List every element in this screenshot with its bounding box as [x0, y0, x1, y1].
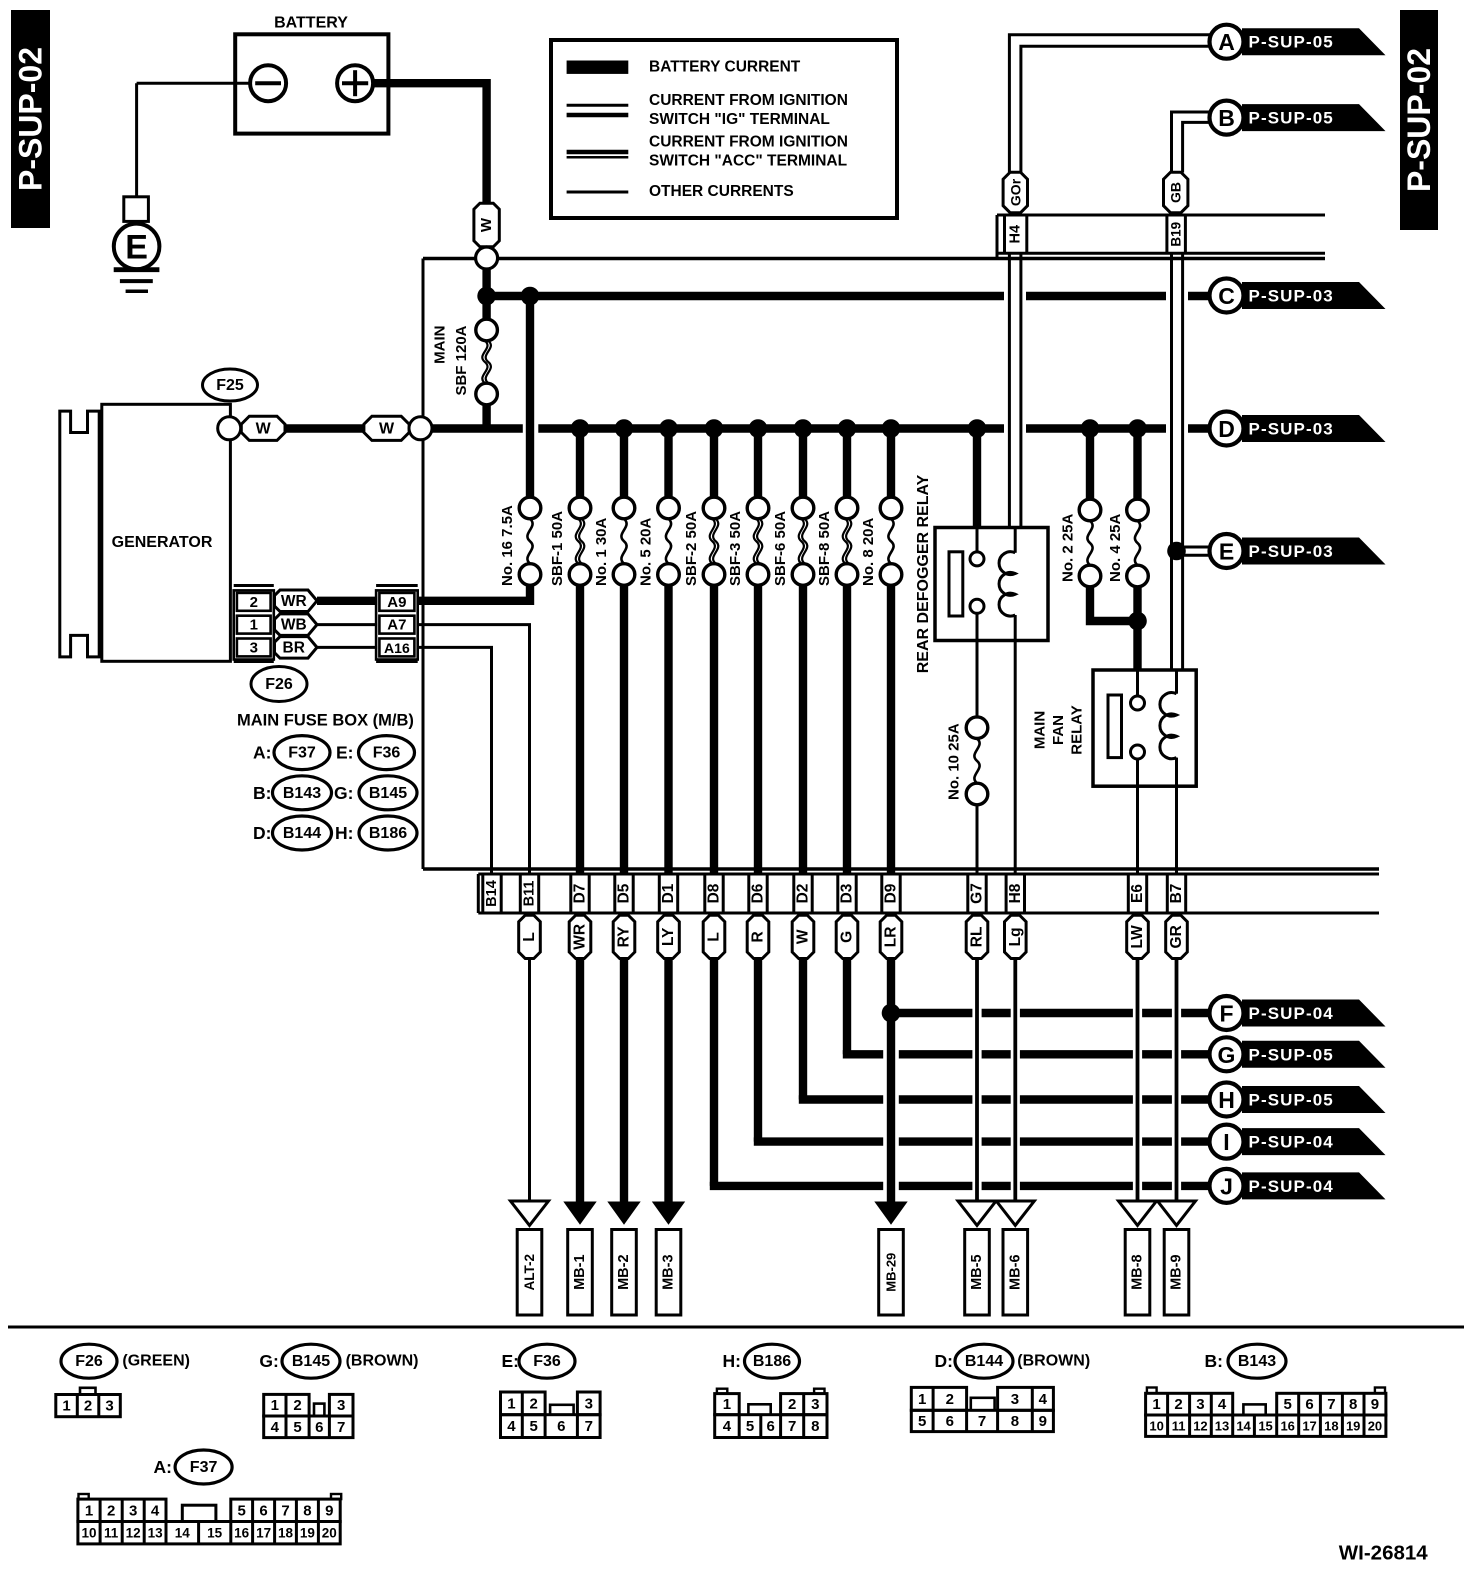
- svg-text:D8: D8: [706, 883, 723, 903]
- svg-text:1: 1: [250, 617, 258, 634]
- svg-text:CURRENT FROM IGNITION: CURRENT FROM IGNITION: [649, 133, 848, 150]
- connector B186 pins: [717, 1389, 727, 1394]
- svg-text:A9: A9: [387, 594, 406, 611]
- wire A16 to B14: [418, 647, 492, 874]
- svg-text:7: 7: [978, 1413, 986, 1430]
- fuse No. 10 25A: [966, 717, 988, 739]
- main fan relay box: [1093, 670, 1196, 786]
- defogger relay coil: [1014, 528, 1017, 553]
- svg-text:(GREEN): (GREEN): [122, 1353, 190, 1370]
- page label P-SUP-02 left: [11, 10, 50, 228]
- svg-text:A:: A:: [253, 743, 271, 763]
- svg-text:4: 4: [1039, 1391, 1048, 1408]
- svg-text:7: 7: [788, 1418, 796, 1435]
- svg-text:6: 6: [557, 1418, 565, 1435]
- wire label WR: [275, 590, 318, 612]
- svg-text:9: 9: [1039, 1413, 1047, 1430]
- svg-text:3: 3: [337, 1397, 345, 1414]
- pin E6: [1127, 874, 1130, 913]
- wire battery feed into box: [482, 269, 490, 320]
- wire capsule to box: [482, 247, 490, 248]
- wire label GB: [1164, 172, 1188, 213]
- junction battery/bus C: [477, 287, 496, 306]
- svg-text:LW: LW: [1129, 925, 1146, 949]
- svg-text:3: 3: [585, 1395, 593, 1412]
- wire fan relay to E6: [1136, 786, 1139, 874]
- battery plus terminal: [337, 65, 373, 101]
- svg-text:8: 8: [1011, 1413, 1019, 1430]
- wire A7 to B11: [418, 625, 530, 874]
- svg-text:P-SUP-04: P-SUP-04: [1249, 1133, 1334, 1152]
- battery minus terminal: [250, 65, 286, 101]
- wire color label RL: [966, 915, 988, 958]
- wire L to ALT-2: [528, 958, 531, 1202]
- svg-text:1: 1: [85, 1502, 93, 1519]
- defogger relay switch: [976, 528, 979, 552]
- main fuse box outline: [423, 257, 1325, 261]
- svg-text:9: 9: [325, 1502, 333, 1519]
- svg-text:16: 16: [1280, 1419, 1294, 1434]
- wire WB to A7: [317, 623, 377, 626]
- svg-text:H: H: [1218, 1087, 1235, 1113]
- svg-text:WI-26814: WI-26814: [1339, 1542, 1428, 1565]
- fuse No. 1 30A: [620, 429, 628, 498]
- svg-text:MB-29: MB-29: [884, 1253, 899, 1292]
- bus D (thick): [228, 424, 523, 432]
- svg-text:B186: B186: [753, 1353, 791, 1370]
- arrow B P-SUP-05: [1242, 104, 1386, 131]
- svg-text:MAIN: MAIN: [1032, 711, 1049, 749]
- svg-text:2: 2: [788, 1396, 796, 1413]
- svg-text:P-SUP-03: P-SUP-03: [1249, 542, 1334, 561]
- arrow to MB-29: [874, 1202, 907, 1225]
- arrow F P-SUP-04: [1242, 1000, 1386, 1027]
- svg-text:12: 12: [126, 1526, 141, 1541]
- box entry circle bus D: [409, 417, 432, 440]
- svg-text:No. 8 20A: No. 8 20A: [860, 517, 877, 586]
- junction E on B19 wire: [1167, 542, 1186, 561]
- svg-text:D5: D5: [616, 883, 633, 903]
- fuse No. 8 20A: [887, 429, 895, 498]
- generator connector bracket: [60, 411, 99, 657]
- svg-text:F: F: [1219, 1001, 1233, 1027]
- connector F25: [203, 369, 258, 401]
- svg-text:B:: B:: [253, 783, 271, 803]
- svg-text:MB-6: MB-6: [1007, 1254, 1023, 1289]
- svg-text:MB-9: MB-9: [1169, 1254, 1185, 1289]
- svg-text:No. 2 25A: No. 2 25A: [1060, 513, 1077, 582]
- svg-text:F26: F26: [75, 1353, 103, 1370]
- svg-text:11: 11: [104, 1526, 119, 1541]
- svg-text:F26: F26: [265, 676, 293, 693]
- pin H8: [1005, 874, 1008, 913]
- svg-text:B186: B186: [369, 825, 407, 842]
- svg-text:7: 7: [585, 1418, 593, 1435]
- svg-text:2: 2: [107, 1502, 115, 1519]
- svg-text:RY: RY: [616, 926, 633, 948]
- legend box: [551, 40, 897, 218]
- wire color label R: [747, 915, 769, 958]
- svg-text:No. 16 7.5A: No. 16 7.5A: [499, 505, 516, 586]
- pin D1: [658, 874, 661, 913]
- svg-text:SBF-1 50A: SBF-1 50A: [549, 511, 566, 586]
- wire color label WR: [569, 915, 591, 958]
- wire battery plus feed (thick): [373, 83, 487, 203]
- wire RY to MB-2 (thick): [620, 958, 628, 1205]
- svg-text:MB-5: MB-5: [969, 1254, 985, 1289]
- svg-text:P-SUP-05: P-SUP-05: [1249, 1091, 1334, 1110]
- svg-text:B145: B145: [369, 785, 407, 802]
- svg-text:P-SUP-03: P-SUP-03: [1249, 287, 1334, 306]
- wire color label G: [836, 915, 858, 958]
- svg-text:11: 11: [1172, 1419, 1186, 1434]
- svg-text:6: 6: [767, 1418, 775, 1435]
- fuse No. 4 25A: [1128, 419, 1147, 438]
- wire color label RY: [613, 915, 635, 958]
- svg-text:1: 1: [918, 1391, 926, 1408]
- svg-text:F25: F25: [216, 377, 244, 394]
- connector F26: [251, 667, 307, 702]
- pin D6: [747, 874, 750, 913]
- svg-text:SBF-6 50A: SBF-6 50A: [772, 511, 789, 586]
- svg-text:E: E: [1219, 539, 1234, 565]
- svg-text:MB-3: MB-3: [661, 1254, 677, 1289]
- wire GOr below strip: [1008, 253, 1011, 527]
- fuse SBF-2 50A: [710, 429, 718, 498]
- svg-text:14: 14: [1236, 1419, 1251, 1434]
- wire bus D to defogger relay (thick): [973, 429, 981, 528]
- svg-text:9: 9: [1371, 1396, 1379, 1413]
- svg-text:18: 18: [1324, 1419, 1338, 1434]
- arrow to MB-8: [1119, 1201, 1157, 1225]
- wire fan relay coil to B7: [1175, 786, 1178, 874]
- page label P-SUP-02 right: [1400, 10, 1438, 230]
- wire to arrow B (double line): [1172, 112, 1213, 173]
- svg-text:4: 4: [271, 1419, 280, 1436]
- wire W to arrow H (thick): [799, 958, 807, 1100]
- svg-text:SBF 120A: SBF 120A: [453, 325, 470, 395]
- svg-text:A:: A:: [154, 1457, 172, 1477]
- svg-text:G:: G:: [259, 1351, 278, 1371]
- svg-text:E6: E6: [1129, 884, 1146, 903]
- svg-text:5: 5: [293, 1419, 301, 1436]
- svg-text:P-SUP-04: P-SUP-04: [1249, 1177, 1334, 1196]
- svg-text:H:: H:: [723, 1351, 741, 1371]
- pin B19: [1165, 215, 1168, 253]
- wire LW to MB-8: [1136, 958, 1140, 1202]
- wire defogger coil to H8: [1014, 640, 1017, 874]
- connector box A9/A7/A16: [376, 584, 418, 587]
- wire Lg to MB-6: [1013, 958, 1017, 1202]
- svg-text:W: W: [256, 420, 272, 437]
- legend other currents line: [567, 191, 629, 194]
- wire to arrow A (double line): [1009, 35, 1212, 173]
- fuse MAIN SBF 120A: [476, 319, 498, 341]
- svg-text:RL: RL: [969, 927, 986, 948]
- svg-text:B:: B:: [1205, 1351, 1223, 1371]
- svg-text:B: B: [1218, 105, 1235, 131]
- fuse SBF-1 50A: [576, 429, 584, 498]
- arrow J P-SUP-04: [1242, 1172, 1386, 1199]
- svg-text:F36: F36: [533, 1353, 561, 1370]
- svg-text:P-SUP-02: P-SUP-02: [1401, 48, 1437, 192]
- pin B11: [519, 874, 522, 913]
- svg-text:A16: A16: [384, 640, 410, 656]
- svg-text:5: 5: [530, 1418, 538, 1435]
- svg-text:REAR DEFOGGER RELAY: REAR DEFOGGER RELAY: [915, 474, 932, 673]
- svg-text:MB-1: MB-1: [572, 1254, 588, 1289]
- pin B14: [481, 874, 484, 913]
- svg-text:W: W: [478, 217, 495, 232]
- wire label GOr: [1003, 172, 1027, 213]
- svg-text:J: J: [1220, 1173, 1233, 1199]
- arrow to MB-5: [958, 1201, 996, 1225]
- svg-text:C: C: [1218, 283, 1235, 309]
- svg-text:D:: D:: [935, 1351, 953, 1371]
- svg-text:2: 2: [250, 594, 258, 611]
- svg-text:P-SUP-04: P-SUP-04: [1249, 1004, 1334, 1023]
- svg-text:4: 4: [151, 1502, 160, 1519]
- svg-text:L: L: [706, 932, 723, 941]
- svg-text:B7: B7: [1168, 884, 1185, 904]
- wire LY to MB-3 (thick): [664, 958, 672, 1205]
- wire WR to MB-1 (thick): [576, 958, 584, 1205]
- arrow to ALT-2: [511, 1201, 549, 1225]
- svg-text:6: 6: [1305, 1396, 1313, 1413]
- wire label BR: [275, 637, 318, 659]
- arrow C P-SUP-03: [1242, 282, 1386, 309]
- pin D3: [836, 874, 839, 913]
- svg-text:I: I: [1223, 1129, 1229, 1155]
- svg-text:B144: B144: [965, 1353, 1003, 1370]
- svg-text:F36: F36: [373, 745, 401, 762]
- svg-text:4: 4: [507, 1418, 516, 1435]
- arrow H P-SUP-05: [1242, 1086, 1386, 1113]
- arrow E P-SUP-03: [1242, 538, 1386, 565]
- fan relay coil: [1175, 670, 1178, 694]
- arrow to MB-1: [563, 1202, 596, 1225]
- svg-text:10: 10: [1149, 1419, 1163, 1434]
- svg-text:FAN: FAN: [1050, 715, 1067, 745]
- fuse No. 16 7.5A: [526, 296, 534, 498]
- svg-text:7: 7: [281, 1502, 289, 1519]
- svg-text:OTHER CURRENTS: OTHER CURRENTS: [649, 183, 794, 200]
- svg-text:A7: A7: [387, 617, 406, 634]
- svg-text:20: 20: [1368, 1419, 1382, 1434]
- svg-text:D6: D6: [750, 883, 767, 903]
- svg-text:GB: GB: [1168, 182, 1184, 203]
- svg-text:G7: G7: [969, 883, 986, 904]
- svg-text:D9: D9: [883, 883, 900, 903]
- svg-text:LR: LR: [883, 927, 900, 948]
- svg-text:B11: B11: [522, 881, 538, 907]
- arrow to MB-2: [607, 1202, 640, 1225]
- pin D7: [569, 874, 572, 913]
- svg-text:CURRENT FROM IGNITION: CURRENT FROM IGNITION: [649, 92, 848, 109]
- junction bus C to fuse 16: [521, 287, 540, 306]
- pin G7: [966, 874, 969, 913]
- arrow to MB-3: [652, 1202, 685, 1225]
- svg-text:8: 8: [1349, 1396, 1357, 1413]
- wire color label LW: [1127, 915, 1149, 958]
- wire color label Lg: [1005, 915, 1027, 958]
- svg-text:13: 13: [1215, 1419, 1229, 1434]
- pin H4: [1003, 215, 1006, 253]
- pin B7: [1166, 874, 1169, 913]
- svg-text:RELAY: RELAY: [1069, 705, 1086, 754]
- fuse No. 2 25A: [1081, 419, 1100, 438]
- connector F26 pins: [80, 1388, 96, 1395]
- svg-text:17: 17: [256, 1526, 271, 1541]
- ground symbol: [114, 267, 160, 272]
- arrow G P-SUP-05: [1242, 1041, 1386, 1068]
- svg-text:P-SUP-05: P-SUP-05: [1249, 109, 1334, 128]
- svg-text:BATTERY CURRENT: BATTERY CURRENT: [649, 59, 801, 76]
- svg-text:MAIN: MAIN: [432, 326, 449, 364]
- svg-text:1: 1: [62, 1398, 70, 1415]
- svg-text:LY: LY: [660, 927, 677, 946]
- svg-text:B143: B143: [1238, 1353, 1276, 1370]
- svg-text:G: G: [839, 931, 856, 943]
- svg-text:3: 3: [811, 1396, 819, 1413]
- pin D9: [880, 874, 883, 913]
- wire to arrow E (double line): [1177, 546, 1213, 549]
- connector strip top: [997, 214, 1325, 217]
- wire label W (bus D): [364, 416, 409, 440]
- svg-text:2: 2: [84, 1398, 92, 1415]
- legend IG current lines: [567, 104, 629, 107]
- svg-text:4: 4: [723, 1418, 732, 1435]
- svg-text:D2: D2: [795, 884, 812, 904]
- wire to arrow F (thick): [891, 1009, 972, 1017]
- svg-text:1: 1: [723, 1396, 731, 1413]
- svg-text:13: 13: [148, 1526, 164, 1541]
- svg-text:8: 8: [303, 1502, 311, 1519]
- svg-text:No. 1 30A: No. 1 30A: [593, 517, 610, 586]
- connector F36 pins: [501, 1392, 546, 1415]
- svg-text:D1: D1: [660, 883, 677, 903]
- ground point E: [114, 224, 160, 270]
- wire LR to MB-29 (thick): [887, 958, 895, 1205]
- rear defogger relay box: [935, 528, 1048, 641]
- pin D5: [613, 874, 616, 913]
- svg-text:BR: BR: [283, 639, 305, 656]
- svg-text:5: 5: [238, 1502, 246, 1519]
- svg-text:F37: F37: [190, 1459, 218, 1476]
- svg-text:7: 7: [337, 1419, 345, 1436]
- svg-text:6: 6: [946, 1413, 954, 1430]
- svg-text:BATTERY: BATTERY: [274, 15, 348, 32]
- svg-text:GOr: GOr: [1007, 178, 1023, 206]
- connector F26 (GREEN) label: [61, 1344, 117, 1378]
- generator pin box: [234, 584, 274, 587]
- svg-text:2: 2: [946, 1391, 954, 1408]
- svg-text:WB: WB: [281, 617, 307, 634]
- fuse SBF-6 50A: [799, 429, 807, 498]
- svg-text:(BROWN): (BROWN): [1017, 1353, 1090, 1370]
- svg-text:P-SUP-02: P-SUP-02: [13, 47, 49, 191]
- generator terminal circle: [218, 417, 241, 440]
- svg-text:P-SUP-05: P-SUP-05: [1249, 1045, 1334, 1064]
- wire color label L: [519, 915, 541, 958]
- svg-text:B145: B145: [292, 1353, 330, 1370]
- connector circle battery entry: [476, 247, 498, 269]
- svg-text:E: E: [125, 229, 148, 267]
- connector B143 pins: [1147, 1388, 1157, 1394]
- svg-text:2: 2: [1174, 1396, 1182, 1413]
- svg-text:2: 2: [293, 1397, 301, 1414]
- junction fan relay feed: [1128, 612, 1147, 631]
- connector B144 pins: [911, 1387, 966, 1410]
- svg-text:GR: GR: [1168, 925, 1185, 948]
- arrow I P-SUP-04: [1242, 1128, 1386, 1155]
- svg-text:B19: B19: [1169, 222, 1184, 247]
- svg-text:3: 3: [250, 639, 258, 656]
- svg-text:MAIN FUSE BOX (M/B): MAIN FUSE BOX (M/B): [237, 711, 414, 729]
- legend battery current bar: [567, 61, 629, 74]
- svg-text:6: 6: [315, 1419, 323, 1436]
- svg-text:No. 5 20A: No. 5 20A: [638, 517, 655, 586]
- svg-text:6: 6: [259, 1502, 267, 1519]
- svg-text:B143: B143: [283, 785, 321, 802]
- wire RL to MB-5: [975, 958, 979, 1202]
- svg-text:1: 1: [507, 1395, 515, 1412]
- svg-text:18: 18: [278, 1526, 294, 1541]
- svg-text:B14: B14: [484, 880, 500, 907]
- wire L(D8) to arrow J (thick): [710, 958, 718, 1186]
- wire B19 below strip: [1170, 253, 1173, 670]
- svg-text:5: 5: [1284, 1396, 1292, 1413]
- svg-text:19: 19: [300, 1526, 315, 1541]
- svg-text:(BROWN): (BROWN): [346, 1353, 419, 1370]
- svg-text:12: 12: [1193, 1419, 1207, 1434]
- svg-text:7: 7: [1327, 1396, 1335, 1413]
- svg-text:P-SUP-03: P-SUP-03: [1249, 420, 1334, 439]
- svg-text:E:: E:: [336, 743, 354, 763]
- wire color label GR: [1166, 915, 1188, 958]
- arrow to MB-9: [1158, 1201, 1196, 1225]
- svg-text:5: 5: [746, 1418, 754, 1435]
- svg-text:2: 2: [530, 1395, 538, 1412]
- svg-text:WR: WR: [281, 593, 307, 610]
- svg-text:H4: H4: [1008, 225, 1024, 244]
- svg-text:10: 10: [81, 1526, 96, 1541]
- svg-text:GENERATOR: GENERATOR: [112, 534, 213, 551]
- svg-text:4: 4: [1218, 1396, 1227, 1413]
- svg-text:P-SUP-05: P-SUP-05: [1249, 33, 1334, 52]
- svg-text:A: A: [1218, 29, 1235, 55]
- wire WR to A9 (thick): [317, 597, 377, 605]
- svg-text:SWITCH "IG" TERMINAL: SWITCH "IG" TERMINAL: [649, 111, 830, 128]
- wire R to arrow I (thick): [754, 958, 762, 1142]
- svg-text:G: G: [1218, 1042, 1236, 1068]
- svg-text:E:: E:: [502, 1351, 520, 1371]
- svg-text:WR: WR: [572, 924, 589, 950]
- svg-text:No. 10 25A: No. 10 25A: [946, 723, 963, 800]
- svg-text:D7: D7: [572, 884, 589, 904]
- svg-text:3: 3: [1011, 1391, 1019, 1408]
- svg-text:19: 19: [1346, 1419, 1360, 1434]
- svg-text:20: 20: [322, 1526, 337, 1541]
- svg-text:17: 17: [1302, 1419, 1316, 1434]
- battery box: [235, 34, 388, 133]
- connector F37 pins: [79, 1494, 89, 1499]
- pin D8: [703, 874, 706, 913]
- svg-text:D:: D:: [253, 823, 271, 843]
- wire label W (battery feed): [474, 203, 499, 247]
- svg-text:SBF-8 50A: SBF-8 50A: [816, 511, 833, 586]
- svg-text:H8: H8: [1007, 883, 1024, 903]
